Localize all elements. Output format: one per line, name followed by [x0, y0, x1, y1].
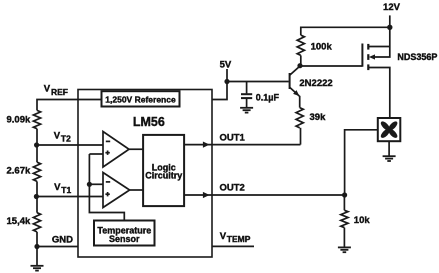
- node 5V junction: [224, 79, 229, 84]
- svg-text:2.67k: 2.67k: [7, 166, 31, 177]
- svg-text:GND: GND: [52, 234, 73, 245]
- svg-text:TEMP: TEMP: [227, 234, 251, 244]
- IC LM56 outline: [78, 90, 212, 258]
- wire 10k to ground: [343, 228, 345, 247]
- wire mosfet source: [368, 46, 390, 48]
- ground (under fan): [383, 156, 396, 161]
- node VT2 junction: [34, 142, 39, 147]
- transistor Q1 2N2222 base bar: [289, 73, 291, 89]
- label 2.67k: [7, 166, 31, 177]
- label LM56: [133, 115, 165, 129]
- mosfet NDS356P gate bar: [361, 44, 363, 67]
- wire VREF from divider to reference box: [37, 100, 102, 111]
- resistor 2.67k: [33, 162, 40, 181]
- wire comparator1 output: [129, 148, 144, 150]
- wire 100k top to 12V rail: [301, 27, 390, 35]
- svg-text:100k: 100k: [311, 42, 333, 53]
- wire comparator1 plus input: [89, 153, 103, 155]
- wire OUT2 to fan: [345, 130, 378, 195]
- node VT1 junction: [34, 194, 39, 199]
- wire divider segment VT1-R3: [36, 197, 38, 213]
- reference 1.250V box: [102, 91, 180, 106]
- wire VT2 to comparator: [37, 144, 103, 146]
- wire divider segment R2-VT1: [36, 181, 38, 196]
- op-amp comparator 1: [103, 132, 129, 168]
- svg-text:V: V: [220, 231, 227, 242]
- svg-text:LM56: LM56: [133, 115, 165, 129]
- label 0.1uF: [256, 92, 280, 102]
- node temp feedback junction: [87, 182, 92, 187]
- svg-text:10k: 10k: [354, 215, 371, 226]
- svg-text:NDS356P: NDS356P: [397, 52, 437, 62]
- fan box: [378, 118, 401, 141]
- svg-text:Sensor: Sensor: [109, 234, 140, 244]
- wire fan to ground: [388, 141, 390, 155]
- label 12V: [383, 2, 401, 13]
- transistor 2N2222 emitter arrow: [293, 90, 299, 96]
- label VTEMP: [220, 231, 251, 244]
- svg-text:39k: 39k: [310, 112, 327, 123]
- svg-text:9.09k: 9.09k: [7, 115, 31, 126]
- wire 5V rail to transistor base: [227, 81, 289, 83]
- wire 5V to V+ pin of LM56: [212, 82, 227, 100]
- wire to ground: [36, 247, 38, 266]
- wire comparator2 output: [130, 189, 144, 191]
- label VT1: [54, 182, 71, 195]
- svg-text:1,250V Reference: 1,250V Reference: [105, 94, 176, 104]
- label 9.09k: [7, 115, 31, 126]
- label OUT1: [220, 133, 246, 144]
- mosfet NDS356P source tick: [367, 44, 369, 50]
- ground (under 10k): [338, 247, 351, 252]
- wire comparator2 minus input: [89, 183, 103, 185]
- transistor 2N2222 emitter: [290, 87, 300, 96]
- logic circuitry box: [143, 135, 184, 206]
- transistor 2N2222 collector: [290, 66, 300, 75]
- wire 5V stub: [226, 69, 228, 82]
- svg-text:Circuitry: Circuitry: [145, 171, 182, 181]
- svg-text:2N2222: 2N2222: [299, 78, 332, 89]
- wire temp sensor feedback vertical: [89, 154, 124, 221]
- svg-text:T2: T2: [61, 134, 71, 144]
- resistor 100k: [297, 35, 304, 55]
- resistor 39k: [296, 108, 303, 128]
- resistor 15.4k: [33, 213, 40, 232]
- node GND junction: [34, 244, 39, 249]
- label GND: [52, 234, 73, 245]
- svg-text:V: V: [54, 130, 61, 141]
- resistor 9.09k: [33, 110, 40, 128]
- wire gate from collector node: [300, 65, 362, 67]
- wire divider segment VREF-VT2: [36, 129, 38, 145]
- node OUT2 junction: [342, 192, 347, 197]
- label 15.4k: [7, 216, 31, 227]
- svg-text:15,4k: 15,4k: [7, 216, 31, 227]
- resistor 10k: [341, 210, 348, 227]
- comparator 1 plus marker: [105, 151, 109, 155]
- svg-text:V: V: [54, 182, 61, 193]
- label 39k: [310, 112, 327, 123]
- wire mosfet body: [375, 47, 390, 58]
- svg-text:T1: T1: [61, 185, 71, 195]
- mosfet NDS356P drain tick: [367, 64, 369, 70]
- svg-text:OUT2: OUT2: [220, 183, 245, 194]
- svg-text:REF: REF: [51, 87, 68, 97]
- svg-text:V: V: [44, 84, 51, 95]
- wire OUT2 to 10k: [343, 195, 345, 210]
- comparator 2 plus marker: [105, 192, 109, 196]
- comparator 2 minus marker: [106, 181, 110, 183]
- fan blades: [379, 120, 399, 139]
- mosfet NDS356P body tick: [367, 54, 369, 60]
- wire GND pin: [37, 246, 78, 248]
- node 12V junction: [387, 25, 392, 30]
- mosfet body arrow: [369, 54, 375, 59]
- wire 12V stub: [389, 15, 391, 46]
- wire OUT1: [184, 144, 301, 146]
- svg-text:OUT1: OUT1: [220, 133, 246, 144]
- wire VTEMP pin: [212, 245, 254, 247]
- wire capacitor top stub: [246, 82, 248, 94]
- node collector junction: [297, 63, 302, 68]
- wire OUT2: [184, 194, 345, 196]
- label 10k: [354, 215, 371, 226]
- op-amp comparator 2: [103, 173, 130, 208]
- label 5V: [220, 59, 232, 70]
- label 2N2222: [299, 78, 332, 89]
- capacitor 0.1uF: [241, 94, 252, 98]
- ground (left): [31, 266, 44, 271]
- wire mosfet drain: [368, 68, 390, 119]
- label VREF: [44, 84, 68, 97]
- label OUT2: [220, 183, 245, 194]
- wire emitter to 39k: [299, 96, 301, 108]
- comparator 1 minus marker: [106, 140, 110, 142]
- svg-text:5V: 5V: [220, 59, 232, 70]
- svg-text:12V: 12V: [383, 2, 401, 13]
- temperature sensor box: [94, 221, 155, 246]
- wire divider segment VT2-R2: [36, 145, 38, 162]
- svg-text:0.1µF: 0.1µF: [256, 92, 280, 102]
- wire 100k bottom: [300, 55, 302, 65]
- wire divider segment R3-GND: [36, 232, 38, 247]
- ground (under capacitor): [240, 108, 253, 113]
- wire VT1 to comparator: [36, 196, 103, 198]
- label Logic Circuitry: [145, 162, 182, 180]
- arrow OUT2: [203, 192, 210, 198]
- wire capacitor bottom stub: [246, 99, 248, 107]
- wire OUT1 to 39k: [300, 128, 302, 145]
- label Temperature Sensor: [97, 226, 151, 244]
- label NDS356P: [397, 52, 437, 62]
- arrow OUT1: [203, 142, 210, 148]
- label 1,250V Reference: [105, 94, 176, 104]
- label VT2: [54, 130, 71, 143]
- label 100k: [311, 42, 333, 53]
